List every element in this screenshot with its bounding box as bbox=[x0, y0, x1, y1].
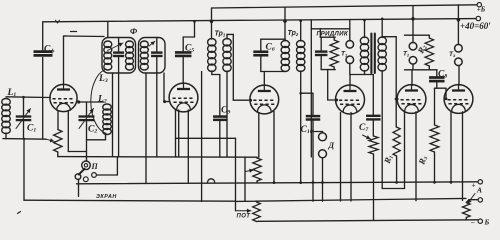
wire V2 grid stub bbox=[165, 101, 170, 103]
wire C10 bottom lead bbox=[312, 120, 314, 202]
wire C9 bottom lead bbox=[219, 120, 221, 157]
wire Tr2 secondary bottom down bbox=[300, 71, 302, 183]
wire V5 left leg bbox=[404, 112, 406, 189]
wire V2 anode up to C5 bbox=[182, 56, 184, 84]
arrow R4 wiper bbox=[245, 170, 254, 172]
wire R3 top from C8 wire bbox=[434, 88, 436, 125]
node junction x=285 on +40 bus bbox=[283, 19, 287, 23]
wire drop at x=211 from top bus bbox=[211, 8, 213, 21]
node V2 grid junction bbox=[163, 100, 166, 103]
vacuum tube V3 bbox=[250, 85, 279, 114]
terminal +A circle bbox=[478, 180, 482, 184]
switch P contact a bbox=[83, 177, 88, 182]
wire T1 upper to top wire bbox=[349, 20, 351, 41]
inductor L3 in box1 left bbox=[104, 41, 112, 48]
arrow to rheostat wiper bbox=[46, 139, 54, 141]
wire C8 bottom lead bbox=[436, 81, 438, 88]
wire Tr1 primary top up bbox=[211, 21, 213, 39]
capacitor C8 bbox=[429, 76, 445, 79]
wire V4 anode up and to output transformer bbox=[349, 75, 351, 86]
node Tr2 top bus junction bbox=[283, 19, 287, 23]
wire heater mid horizontal y=138 bbox=[176, 137, 236, 139]
wire Tr2 bottom corner to C10 bbox=[301, 92, 313, 94]
wire bottom horizontal y=139 (L1/C1 common) bbox=[3, 138, 46, 141]
wire gridleak cap top lead bbox=[319, 29, 321, 37]
node C5 bus junction bbox=[193, 20, 196, 23]
svg-text:Тр2: Тр2 bbox=[288, 30, 299, 37]
wire Tr1 secondary bottom down bbox=[226, 71, 228, 157]
node C10 to jack corner bbox=[313, 131, 323, 133]
wire main bus +40-60 (y=21) bbox=[43, 19, 476, 22]
wire box1 center vertical bbox=[118, 38, 120, 53]
arrow through C2 (variable) bbox=[79, 109, 94, 129]
wire bottom bus y=220 (-B) bbox=[259, 220, 478, 222]
jack T1 upper bbox=[346, 41, 354, 49]
node junction x=211 on +40 bus bbox=[210, 20, 214, 24]
node Tr2-C10 junction bbox=[299, 92, 302, 95]
wire bus y=201 (pot bus) bbox=[236, 198, 467, 201]
output transformer secondary coil bbox=[378, 37, 386, 45]
node x=382 bus junction bbox=[381, 18, 384, 21]
node V1 grid-right junction bbox=[77, 100, 80, 103]
wire V2 left leg lower bbox=[175, 110, 177, 157]
wire R1 bottom bbox=[396, 156, 398, 183]
node x=458 bus junction bbox=[457, 18, 461, 22]
capacitor C2 variable bbox=[79, 115, 95, 117]
svg-text:ГРИДЛИК: ГРИДЛИК bbox=[317, 31, 349, 38]
svg-text:+: + bbox=[472, 182, 476, 190]
wire Cf top lead to +40 bus bbox=[42, 22, 44, 52]
node Tr2 lead on bus bbox=[299, 181, 302, 184]
gridleak RC bottom wire bbox=[321, 69, 335, 71]
svg-text:Т2: Т2 bbox=[403, 51, 410, 58]
node R3 bottom on bus bbox=[433, 181, 436, 184]
arrow through C1 (variable) bbox=[16, 109, 31, 129]
node x=24 on y=139 wire bbox=[23, 138, 25, 140]
node V6 grid junction bbox=[445, 97, 448, 100]
wire x=235.5 vertical bbox=[235, 138, 237, 201]
wire T1 lower lead down bbox=[349, 63, 351, 74]
transformer Tr2 secondary coil bbox=[297, 41, 305, 48]
node V5 grid junction bbox=[395, 98, 398, 101]
wire V2 right leg bbox=[187, 110, 189, 183]
wire rheostat bottom to heater bus bbox=[57, 152, 59, 157]
wire mid terminal to right pot bbox=[469, 199, 478, 201]
wire hop on filament bus bbox=[208, 179, 215, 183]
filter box 2 outline bbox=[139, 38, 166, 74]
wire secondary bottom down bbox=[381, 71, 383, 189]
potentiometer POT bbox=[253, 202, 261, 222]
wire C6 bottom to anode junction bbox=[260, 55, 262, 71]
wire Tr1 secondary top corner bbox=[226, 34, 228, 39]
wire screen bus (y=36) left bbox=[65, 35, 105, 38]
wire box2 cap bottom down (x=156.8) bbox=[156, 73, 158, 157]
svg-text:+40=60′: +40=60′ bbox=[460, 21, 491, 31]
wire V3 anode up bbox=[263, 72, 265, 86]
transformer Tr1 secondary coil bbox=[223, 39, 231, 46]
wire horizontal y=35 (T2/R2 top) bbox=[405, 34, 430, 36]
wire L1 bottom lead bbox=[5, 133, 7, 139]
capacitor box1 trimmer bbox=[113, 51, 124, 53]
resistor bias R under C7 bbox=[369, 136, 378, 154]
wire box2 cap vertical bbox=[156, 38, 158, 53]
wire V1 grid to L2 (y=102) bbox=[79, 101, 104, 103]
resistor R3 bbox=[430, 125, 439, 152]
capacitor C7 bbox=[366, 115, 381, 117]
wire x=458 from top bus down bbox=[457, 5, 459, 45]
filter box 1 outline bbox=[102, 38, 136, 74]
wire L1 top to tube V1 grid (y=97) bbox=[6, 96, 50, 99]
svg-text:ЭКРАН: ЭКРАН bbox=[96, 194, 117, 200]
wire box2 right bottom to V2 grid bbox=[163, 73, 165, 102]
wire V5 anode up bbox=[411, 70, 413, 86]
wire C10 top lead bbox=[312, 93, 314, 116]
vacuum tube V1 bbox=[50, 84, 77, 111]
transformer Tr1 primary coil bbox=[208, 39, 216, 46]
minus sign above screen bus bbox=[71, 31, 77, 33]
wire V5 right leg bbox=[415, 112, 417, 201]
wire Tr2 secondary top up to bus bbox=[300, 21, 302, 41]
inductor L1 antenna coil bbox=[2, 99, 11, 106]
wire C6 top corner to Tr2 primary top bbox=[260, 39, 262, 52]
wire C7 bottom lead bbox=[372, 119, 374, 136]
wire V3 right leg bbox=[273, 112, 275, 183]
wire top bus +B (y=7) bbox=[212, 5, 478, 8]
wire x=245 vertical heater drop bbox=[244, 157, 246, 201]
wire C8 to V6 grid bbox=[435, 87, 447, 89]
arrow POT wiper bbox=[236, 210, 251, 212]
node V3 right leg on bus bbox=[273, 181, 276, 184]
svg-text:+Б: +Б bbox=[477, 5, 486, 13]
vacuum tube V2 bbox=[169, 83, 198, 112]
switch P contact b bbox=[92, 173, 97, 178]
svg-text:–: – bbox=[470, 219, 475, 227]
wire gridleak to V4 grid bbox=[327, 70, 329, 100]
wire C9 top lead bbox=[219, 75, 221, 117]
inductor box1 right coil bbox=[126, 41, 134, 48]
arrow bias wiper bbox=[363, 135, 371, 139]
arrow in box1 coupling bbox=[108, 43, 124, 51]
inductor box2 coil bbox=[140, 41, 148, 48]
wire vertical from Cf down through grid wire to bottom (x=42.7) bbox=[42, 58, 44, 139]
wire T2 lower lead bbox=[412, 64, 414, 70]
wire box1 bottom lead a bbox=[112, 73, 114, 157]
svg-text:ПОТ: ПОТ bbox=[237, 214, 252, 220]
coupling ellipse variometer L2-L3 bbox=[91, 69, 107, 133]
wire secondary top from bus T1 bbox=[381, 19, 383, 38]
wire Tr1 primary bottom jog bbox=[211, 71, 213, 75]
jack T2 upper bbox=[409, 42, 417, 50]
arrow box2 trimmer bbox=[149, 41, 155, 46]
wire C8 top lead bbox=[436, 70, 438, 78]
switch P lever end circle bbox=[75, 174, 81, 180]
svg-text:Т1: Т1 bbox=[341, 51, 347, 58]
wire D lower lead down bbox=[322, 158, 324, 201]
svg-text:Ф: Ф bbox=[130, 26, 138, 36]
wire box1 top to +40 bus (x=107.5) bbox=[107, 22, 109, 38]
capacitor C9 bbox=[213, 115, 227, 118]
wire filament bus y=183 (+A) bbox=[77, 182, 478, 184]
wire x=311 long vertical bbox=[310, 20, 312, 157]
node primary top junction bbox=[363, 19, 366, 22]
wire gridleak top bus y=28.8 bbox=[311, 28, 350, 30]
wire box1 bottom lead b bbox=[118, 73, 120, 157]
svg-text:Б: Б bbox=[484, 218, 490, 227]
jack T3 upper bbox=[455, 44, 463, 52]
output transformer core bars bbox=[370, 34, 372, 74]
svg-text:Тр1: Тр1 bbox=[215, 31, 226, 38]
capacitor C6 bbox=[253, 50, 268, 53]
resistor gridleak bbox=[330, 40, 338, 67]
switch P lever bbox=[79, 169, 85, 175]
node C10 lead on bus bbox=[312, 181, 315, 184]
capacitor gridleak bbox=[315, 50, 328, 52]
wire V4 left leg bbox=[340, 113, 342, 202]
resistor R4 (y157 to y182) bbox=[253, 158, 261, 181]
wire D upper lead bbox=[322, 132, 324, 133]
wire V4 right leg bbox=[350, 113, 352, 202]
jack D lower bbox=[319, 150, 327, 158]
wire V3 grid horizontal bbox=[233, 99, 250, 101]
svg-text:Т3: Т3 bbox=[449, 51, 456, 58]
wire y=36.7 jog to x=396 bbox=[382, 36, 396, 38]
svg-text:А: А bbox=[476, 186, 482, 195]
wire box2 left coil bottom down (x=146) bbox=[145, 73, 147, 183]
jack T3 lower bbox=[455, 58, 463, 66]
node C1 top junction bbox=[22, 96, 25, 99]
wire V3 left leg bbox=[258, 113, 260, 158]
speck mark bbox=[18, 212, 21, 214]
capacitor box2 bbox=[151, 51, 163, 53]
node D lead on bus bbox=[321, 181, 324, 184]
wire C7 top lead bbox=[372, 75, 374, 116]
svg-text:Д: Д bbox=[328, 141, 335, 150]
transformer Tr2 primary coil bbox=[281, 41, 289, 48]
potentiometer right vertical bbox=[463, 203, 471, 218]
wire pot bottom corner bbox=[257, 220, 259, 222]
terminal +40-60 circle bbox=[476, 16, 480, 20]
terminal -B circle bbox=[478, 219, 482, 223]
wire V6 right leg bbox=[462, 112, 464, 201]
wire V6 anode to T3 lower bbox=[458, 65, 460, 85]
jack D upper bbox=[319, 133, 327, 141]
wire V2 left leg bbox=[178, 110, 180, 157]
node V4 grid junction bbox=[335, 99, 338, 102]
terminal +B circle bbox=[477, 2, 481, 6]
jack T2 lower bbox=[409, 57, 417, 65]
gridleak RC top wire bbox=[320, 36, 335, 38]
wire screen box left side bbox=[23, 140, 25, 200]
wire C5 top lead and corner to bus bbox=[182, 37, 184, 52]
inductor L2 coil bbox=[103, 104, 112, 110]
wire V1 right leg down then left bbox=[67, 111, 69, 152]
capacitor Cf plates bbox=[34, 50, 53, 53]
resistor R2 bbox=[425, 38, 433, 66]
wire screen box bottom (EKRAN line) bbox=[24, 200, 236, 201]
wire primary top up to bus bbox=[364, 20, 366, 37]
wire switch P bottom to screen line bbox=[78, 179, 80, 185]
wire drop at x=285 from top bus bbox=[284, 7, 286, 39]
resistor R1 bbox=[393, 127, 400, 156]
wire anode bus y=70 (V5) bbox=[405, 69, 438, 71]
node R1 bottom on bus bbox=[395, 181, 398, 184]
wire bias resistor bottom to -B bus bbox=[373, 154, 375, 220]
wire heater bus y=156.7 (rheostat to R4) bbox=[58, 156, 257, 159]
wire x=233 down to V3 grid bbox=[232, 34, 234, 100]
vacuum tube V4 bbox=[336, 85, 365, 114]
capacitor C5 bbox=[175, 51, 192, 54]
resistor rheostat filament V1 bbox=[54, 130, 62, 153]
svg-text:П: П bbox=[91, 162, 99, 171]
node V6 left leg on bus bbox=[450, 181, 453, 184]
wire x=396 down from jog bbox=[395, 37, 397, 127]
wire tick on +40 bus bbox=[56, 20, 60, 23]
node Tr2 top junction bbox=[299, 19, 302, 22]
wire anode junction horizontal to Tr2 primary bottom bbox=[261, 71, 286, 73]
wire R3 bottom bbox=[434, 152, 436, 183]
capacitor C1 variable bbox=[16, 115, 32, 117]
vacuum tube V6 bbox=[444, 85, 473, 114]
terminal mid circle bbox=[478, 198, 482, 202]
output transformer primary coil bbox=[360, 37, 368, 45]
wire y=185.3 segment bbox=[78, 185, 80, 196]
wire V1 left leg to rheostat bbox=[57, 111, 59, 130]
node V3 grid junction bbox=[249, 99, 252, 102]
switch P rotor circle bbox=[82, 161, 91, 170]
capacitor C10 bbox=[306, 115, 321, 118]
vacuum tube V5 bbox=[397, 85, 426, 114]
jack T1 lower bbox=[346, 56, 354, 64]
wire L2 bottom jog to C2 line bbox=[105, 134, 107, 140]
wire switch P output bbox=[96, 174, 117, 176]
wire short bus y=188.5 bbox=[382, 188, 404, 190]
wire x=413 from top bus down bbox=[412, 6, 414, 43]
arrow right pot wiper bbox=[468, 194, 476, 204]
wire V1 anode up to screen bus bbox=[63, 36, 65, 84]
wire x=201 vertical bbox=[201, 72, 203, 202]
wire V6 left leg bbox=[450, 112, 452, 183]
node x=413 T1 junction bbox=[411, 17, 415, 21]
